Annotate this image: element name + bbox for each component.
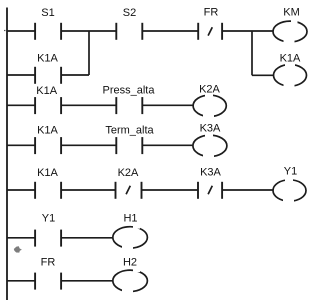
wire K1A contact to junction [61, 74, 89, 76]
svg-text:H1: H1 [123, 213, 137, 225]
svg-text:FR: FR [41, 257, 56, 269]
wire rung4 rail to K1A [7, 144, 35, 146]
contact FR (NC) [198, 23, 222, 40]
tick left of rail [4, 30, 6, 32]
wire rung1 rail to S1 [7, 30, 35, 32]
svg-text:Y1: Y1 [284, 166, 297, 178]
wire rung6 rail to Y1 contact [7, 237, 35, 239]
contact Y1 [35, 230, 61, 247]
contact FR rung7 [35, 273, 61, 290]
coil KM [273, 20, 307, 44]
svg-text:K2A: K2A [199, 84, 220, 96]
svg-text:K1A: K1A [37, 53, 58, 65]
svg-text:H2: H2 [123, 257, 137, 269]
wire K1A to K2A NC [61, 189, 116, 191]
svg-text:K1A: K1A [36, 85, 57, 97]
svg-text:K1A: K1A [280, 53, 301, 65]
contact Term_alta [116, 137, 142, 154]
wire S2 to FR [142, 30, 198, 32]
wire Term_alta to K3A coil [142, 144, 192, 146]
contact K3A (NC) [198, 182, 222, 199]
coil Y1 [273, 178, 306, 202]
coil H2 [113, 269, 148, 293]
contact S2 [116, 23, 142, 40]
coil H1 [113, 225, 148, 249]
wire rung5 rail to K1A [7, 189, 35, 191]
wire branch to K1A coil [252, 74, 274, 76]
node junction to K1A coil branch [251, 31, 253, 75]
coil K2A [193, 94, 226, 118]
wire K3A to Y1 coil [222, 189, 273, 191]
svg-text:K3A: K3A [200, 123, 221, 135]
contact Press_alta [116, 97, 142, 114]
wire rung2 rail to K1A contact [7, 74, 35, 76]
svg-text:KM: KM [283, 7, 300, 19]
wire K2A to K3A [142, 189, 199, 191]
svg-text:K3A: K3A [200, 167, 221, 179]
wire rung3 rail to K1A [7, 104, 35, 106]
contact K1A rung5 [35, 182, 61, 199]
wire K1A to Press_alta [61, 104, 116, 106]
wire FR to KM coil [222, 30, 273, 32]
svg-text:K1A: K1A [37, 167, 58, 179]
svg-text:S1: S1 [41, 7, 54, 19]
wire Y1 to H1 coil [61, 237, 113, 239]
wire rung7 rail to FR contact [7, 280, 35, 282]
node junction rung1/branch K1A contact [88, 31, 90, 75]
contact K1A rung4 [35, 137, 61, 154]
left power rail [6, 8, 8, 301]
svg-text:FR: FR [204, 7, 219, 19]
coil K1A [274, 63, 307, 87]
svg-text:K2A: K2A [118, 167, 139, 179]
svg-text:Y1: Y1 [42, 213, 55, 225]
cursor arrow [14, 246, 22, 252]
contact S1 [35, 23, 61, 40]
coil K3A [193, 134, 227, 158]
wire S1 to S2 [61, 30, 116, 32]
svg-text:Press_alta: Press_alta [103, 85, 156, 97]
wire FR to H2 coil [61, 280, 113, 282]
contact K1A rung3 [35, 97, 61, 114]
svg-text:K1A: K1A [37, 125, 58, 137]
contact K2A (NC) [116, 182, 142, 199]
svg-text:Term_alta: Term_alta [105, 125, 154, 137]
wire K1A to Term_alta [61, 144, 116, 146]
wire Press_alta to K2A coil [142, 104, 193, 106]
svg-text:S2: S2 [123, 7, 136, 19]
contact K1A seal-in [35, 67, 61, 84]
